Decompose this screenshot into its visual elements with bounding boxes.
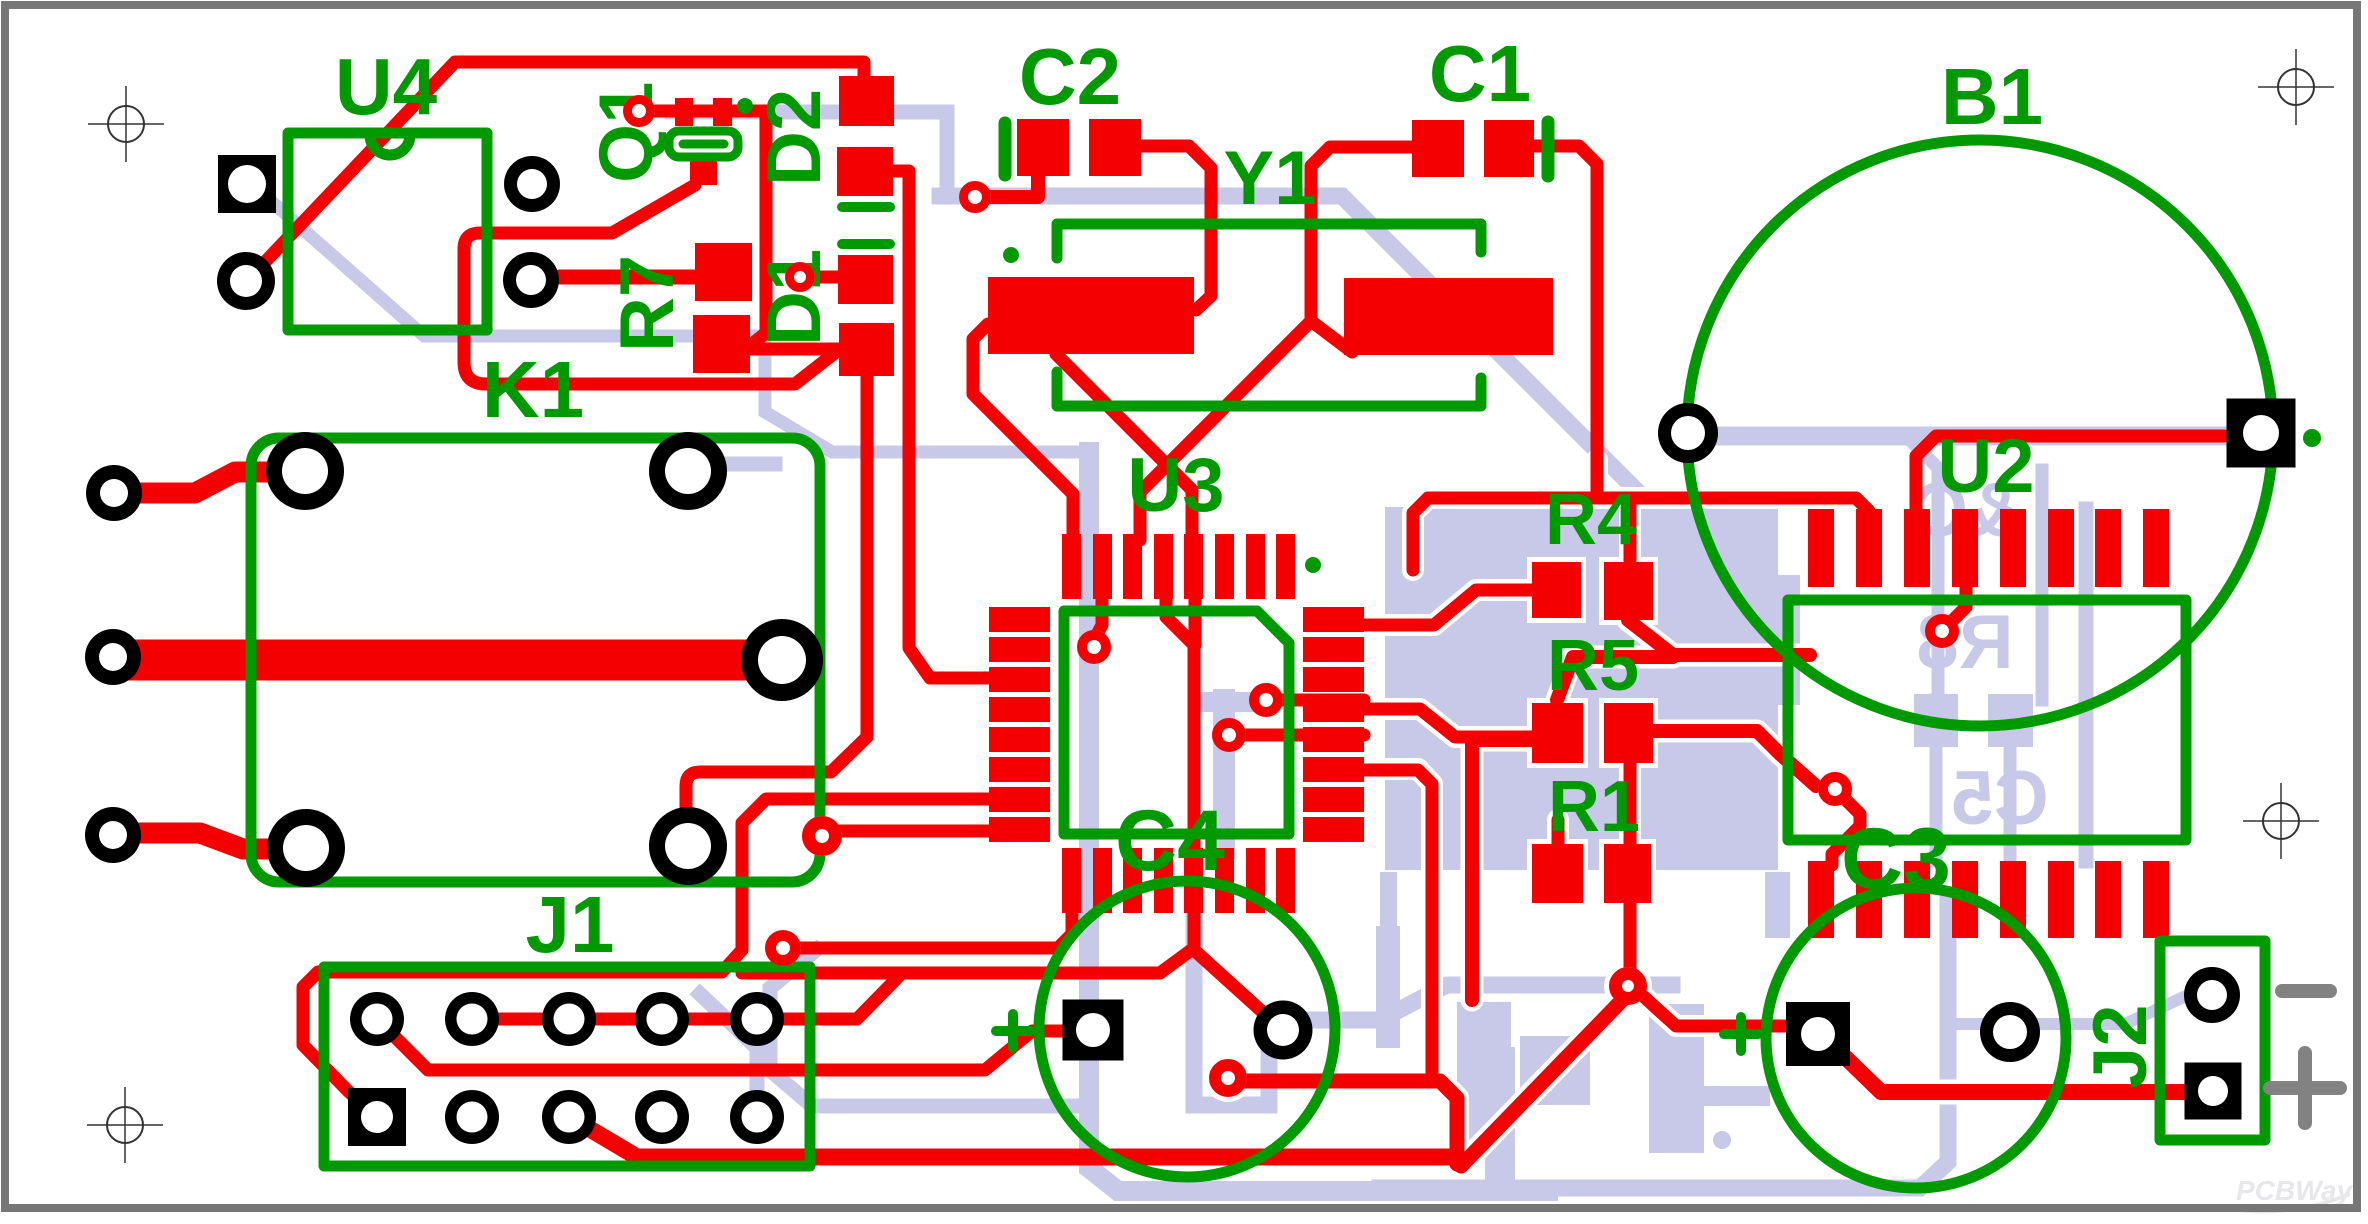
pad U3-bot-3 <box>1123 848 1142 913</box>
pad D2-2 <box>839 76 894 126</box>
svg-text:Q1: Q1 <box>584 82 669 183</box>
wire U3 ring2 stub <box>1246 729 1364 742</box>
pad U2-bot-3 <box>1904 861 1930 938</box>
pad bottom big pad A <box>1457 1002 1511 1159</box>
wire C1 pad2 to net <box>1534 146 1597 496</box>
pad P2 <box>85 629 141 685</box>
svg-text:U4: U4 <box>335 42 438 131</box>
svg-text:J1: J1 <box>526 880 615 969</box>
outline K1 <box>251 438 820 882</box>
fiducial top-right <box>2258 49 2334 125</box>
pad Q1-2 <box>713 98 732 126</box>
pad U2-bot-1 <box>1808 861 1834 938</box>
outline J2 <box>2160 941 2265 1140</box>
svg-text:C5: C5 <box>1951 756 2048 841</box>
pad U4-2 <box>217 252 275 310</box>
pad K1-3 <box>741 619 823 701</box>
via bottom dot <box>1713 1131 1731 1149</box>
pad U3-left-1 <box>989 607 1050 632</box>
watermark PCBWay <box>2232 1175 2354 1213</box>
wire bottom region arm <box>1660 628 1787 652</box>
svg-text:U2: U2 <box>1937 424 2034 509</box>
wire U3 pin2 to via-a <box>1094 599 1102 640</box>
via U3-a <box>1077 630 1111 664</box>
wire bottom C4 vertical <box>1194 858 1269 1105</box>
wire U3 ring stub <box>1283 694 1364 707</box>
outline Q1 <box>669 131 738 157</box>
pad bottom band to C3 <box>1700 1086 1770 1106</box>
pad U3-top-6 <box>1215 534 1234 599</box>
pad bottom U2 pad2 <box>1988 694 2033 747</box>
pad U2-bot-2 <box>1856 861 1882 938</box>
pad J1-1 square <box>348 1088 406 1146</box>
fiducial bottom-right <box>2243 783 2319 859</box>
pad bottom left step <box>1380 872 1397 1022</box>
wire J1 via to U3 bottom pin1 <box>800 908 1072 948</box>
pad R4-2 <box>1604 562 1653 620</box>
via D1 <box>785 262 815 292</box>
outline B1 circle <box>1687 140 2273 726</box>
pad Q1-3 <box>690 158 717 185</box>
symbol C3 plus <box>1724 1017 1758 1051</box>
wire Q1 pad3 to D1 pad2 loop <box>464 185 836 384</box>
pad U3-top-4 <box>1154 534 1173 599</box>
via C2 <box>959 181 991 213</box>
outline Y1 bracket top <box>1057 224 1481 258</box>
pad U3-top-5 <box>1184 534 1203 599</box>
wire U3 row7 to J1 pin1 <box>303 799 992 1112</box>
via U2-b <box>1818 772 1852 806</box>
pad J1-3 row1 <box>445 992 499 1046</box>
pad U3-right-4 <box>1303 697 1364 722</box>
pad U3-left-7 <box>989 787 1050 812</box>
wire bottom U2 feed verticals <box>1910 440 1938 700</box>
pad R1-2 <box>1604 844 1651 903</box>
pad D1-1 <box>838 255 893 304</box>
dot B1 pin1 <box>2303 429 2321 447</box>
pad U3-top-7 <box>1246 534 1265 599</box>
pad U3-right-8 <box>1303 817 1364 842</box>
wire U4 diagonal to top rail <box>246 62 864 282</box>
pad J1-11 row2 <box>445 1090 499 1144</box>
wire R5 pad2 to U2 ring <box>1653 731 1816 786</box>
svg-text:B1: B1 <box>1941 52 2043 141</box>
pad U3-bot-5 <box>1184 848 1203 913</box>
pad U4-1 square <box>218 155 276 213</box>
pad U3-left-4 <box>989 697 1050 722</box>
wire R7 pad2 to D1 <box>748 343 840 356</box>
wire D2 pad2 to U3 left row3 <box>893 171 992 678</box>
pad Q1-1 <box>675 98 693 126</box>
pad U3-bot-4 <box>1154 848 1173 913</box>
wire K1 pad2 to R7 pad1 <box>560 270 697 285</box>
pad U2-bot-6 <box>2048 861 2074 938</box>
svg-text:PCBWay: PCBWay <box>2236 1175 2354 1206</box>
wire bottom bus right riser <box>1380 898 1948 1188</box>
pad C4-plus square <box>1063 1000 1124 1061</box>
pad R7-1 <box>695 243 752 301</box>
pad U2-top-7 <box>2095 509 2121 587</box>
wire Q1 row to R7 <box>655 111 766 344</box>
outline D2 bar <box>842 202 890 212</box>
wire bottom net B1-to-B1pad <box>1700 427 2222 446</box>
svg-text:C2: C2 <box>1019 32 1121 121</box>
wire B1 pad to U2 pin3 <box>1916 436 2224 512</box>
wire U3 row1 to R4 pad1 <box>1364 590 1535 625</box>
pad J1-13 row2 <box>635 1090 689 1144</box>
dot Y1 pin1 <box>1003 247 1019 263</box>
pad K1-4 <box>267 809 345 887</box>
pad C1-2 <box>1484 120 1534 177</box>
outline Y1 bracket bottom <box>1057 372 1481 406</box>
svg-text:J2: J2 <box>2078 1004 2163 1089</box>
pad C2-2 <box>1089 119 1141 176</box>
pad U2-top-6 <box>2048 509 2074 587</box>
wire bottom K1 pad stub <box>693 457 775 472</box>
wire J1 row1 bus <box>472 974 901 1019</box>
wire P3 to K1 pad4 <box>103 833 290 849</box>
pad U3-top-1 <box>1062 534 1081 599</box>
pad D1-2 <box>839 323 894 376</box>
wire R4 rail <box>1413 498 1428 570</box>
svg-text:C1: C1 <box>1429 29 1531 118</box>
via U2-a <box>1925 614 1959 648</box>
wire bottom J1 z-path <box>770 950 1089 1106</box>
pad U4-4 <box>503 252 559 308</box>
wire J1 pin2 to C4 pad+ <box>377 1019 1066 1070</box>
pad U2-top-3 <box>1904 509 1930 587</box>
outline C1 bar <box>1542 122 1555 176</box>
wire bottom Q1 row <box>672 112 947 196</box>
svg-text:U3: U3 <box>1127 443 1224 528</box>
svg-text:Y1: Y1 <box>1224 136 1317 221</box>
wire R5 pad1 down <box>1472 740 1493 1000</box>
wire R5-R1 link <box>1624 760 1637 848</box>
wire bottom U3 left vertical <box>1089 452 1548 1191</box>
pad J1-6 row1 <box>730 992 784 1046</box>
outline U4 <box>288 133 487 330</box>
pad U2-bot-7 <box>2095 861 2121 938</box>
outline U2 <box>1788 600 2186 840</box>
pad R5-2 <box>1604 703 1653 763</box>
pad U2-bot-8 <box>2143 861 2169 938</box>
wire R4 pad2 to R5 rail <box>1628 620 1810 655</box>
wire bottom J1 right diagonal <box>700 994 757 1114</box>
wire bottom J2 feed <box>1948 996 2212 1024</box>
wire R4 pad2 up <box>1624 498 1637 560</box>
wire C4 fork left <box>742 838 1194 973</box>
wire bus diagonal to R1 via <box>1461 992 1630 1166</box>
wire D1 via stub <box>812 271 840 284</box>
wire R1 to via <box>1624 900 1637 970</box>
copper pour clearance halos <box>1385 460 2200 1166</box>
pad U2-top-4 <box>1952 509 1978 587</box>
pad K1-5 <box>649 807 727 885</box>
wire bus riser to C4 ring <box>1243 1081 1457 1164</box>
wire J1 pin13 bus to C4 ring <box>568 1116 1457 1157</box>
svg-text:R7: R7 <box>605 255 690 352</box>
pad C2-1 <box>1017 119 1069 176</box>
wire bottom bus left diagonal <box>1269 985 1672 1020</box>
pad P3 <box>85 807 141 863</box>
wire P1 to K1 pad1 <box>104 472 290 493</box>
pad J1-5 row1 <box>635 992 689 1046</box>
pad R4-1 <box>1532 562 1581 618</box>
pad U3-left-6 <box>989 757 1050 782</box>
outline C3 circle <box>1766 888 2066 1188</box>
outline C4 circle <box>1039 881 1335 1177</box>
outline U3 <box>1064 611 1289 834</box>
pad U2-top-1 <box>1808 509 1834 587</box>
pad U2-top-2 <box>1856 509 1882 587</box>
svg-text:C3: C3 <box>1841 811 1951 907</box>
svg-text:R5: R5 <box>1547 626 1639 706</box>
pad U3-right-5 <box>1303 727 1364 752</box>
pad bottom hook band <box>1520 1036 1590 1105</box>
via J1-via <box>765 930 801 966</box>
pad J2-1 <box>2184 967 2240 1023</box>
wire U3 internal Y <box>1166 599 1195 838</box>
pad U3-left-2 <box>989 637 1050 662</box>
pad U3-bot-7 <box>1246 848 1265 913</box>
symbol J2 minus <box>2282 984 2330 998</box>
pad U3-bot-8 <box>1276 848 1295 913</box>
pad J2-2 square <box>2185 1063 2242 1120</box>
pad bottom strip R <box>1765 872 1790 938</box>
pad U2-bot-4 <box>1952 861 1978 938</box>
pad U3-left-5 <box>989 727 1050 752</box>
pad U2-bot-5 <box>2000 861 2026 938</box>
wire C2 via stub <box>989 176 1038 197</box>
svg-text:K1: K1 <box>482 345 584 434</box>
pad U3-bot-2 <box>1093 848 1112 913</box>
wire bottom C2-to-region diagonal <box>940 196 1650 504</box>
wire Y1 pad2 to U3 pin3 <box>1140 321 1311 540</box>
svg-text:C4: C4 <box>1115 793 1225 889</box>
pad B1-1 <box>1658 403 1718 463</box>
pad C3-minus <box>1980 1002 2040 1062</box>
wire bottom U3 inner vertical <box>1213 700 1235 848</box>
pad U3-right-2 <box>1303 637 1364 662</box>
wire C3 pad to J2 <box>1845 1057 2200 1092</box>
wire R1 pad1 stub <box>1552 820 1565 845</box>
pad U3-left-3 <box>989 667 1050 692</box>
wire U2 ring1 stub <box>1944 585 1966 629</box>
pad U3-top-3 <box>1123 534 1142 599</box>
wire C4 fork right to pad <box>1194 950 1278 1026</box>
wire Y1 pad1 to U3 pin1 <box>973 324 1073 540</box>
svg-text:D2: D2 <box>752 89 837 186</box>
pad R1-1 <box>1532 844 1583 903</box>
outline U4 notch <box>370 135 410 155</box>
copper pour bottom region <box>1376 507 2033 1195</box>
pad J1-14 row2 <box>730 1090 784 1144</box>
pad U3-bot-1 <box>1062 848 1081 913</box>
svg-text:R1: R1 <box>1548 767 1640 847</box>
via R1-via <box>1609 967 1647 1005</box>
pad R7-2 <box>693 315 750 373</box>
pad U2-top-5 <box>2000 509 2026 587</box>
outline C2 bar <box>999 123 1012 175</box>
symbol J2 plus <box>2270 1053 2340 1123</box>
wire Y1 pad1 top diagonal <box>1056 354 1192 540</box>
wire via to C3 pad <box>1643 996 1792 1026</box>
fiducial bottom-left <box>87 1087 163 1163</box>
wire bottom U4-K1 diagonal <box>272 202 1085 452</box>
pad bottom big pad B <box>1649 1004 1704 1153</box>
pad C4-minus <box>1254 1001 1313 1060</box>
via Q1 <box>623 95 655 127</box>
pad U3-left-8 <box>989 817 1050 842</box>
dot U3 pin1 <box>1305 557 1321 573</box>
pad bottom U2 pad1 <box>1914 694 1958 747</box>
pad P1 <box>86 465 142 521</box>
pad K1-1 <box>266 432 344 510</box>
outline Q1 bar <box>683 140 724 149</box>
dot Q1 pin1 <box>737 98 753 114</box>
pad bottom small strip <box>1376 926 1400 1048</box>
pad J1-4 row1 <box>542 992 596 1046</box>
pad U3-right-7 <box>1303 787 1364 812</box>
pad K1-2 <box>649 432 727 510</box>
wire U3 row5 right <box>1364 770 1432 1074</box>
via C4-via <box>1209 1059 1247 1097</box>
outline J1 <box>324 967 810 1166</box>
pad U3-top-2 <box>1093 534 1112 599</box>
pad U3-right-3 <box>1303 667 1364 692</box>
svg-text:R4: R4 <box>1545 480 1637 560</box>
pad C3-plus square <box>1786 1002 1850 1066</box>
wire P2 to K1 pad3 thick bus <box>100 640 770 681</box>
pad J1-12 row2 <box>542 1090 596 1144</box>
pad J1-2 row1 <box>350 992 404 1046</box>
pad U3-right-1 <box>1303 607 1364 632</box>
pad B1-2 square <box>2227 399 2296 468</box>
wire U2 ring2 elbow <box>1832 791 1860 865</box>
pad U4-3 <box>504 156 560 212</box>
pad C1-1 <box>1412 120 1464 177</box>
outline D1 bar <box>842 239 890 249</box>
wire D1 pad2 to K1 pad6 <box>686 376 867 840</box>
pad U3-bot-6 <box>1215 848 1234 913</box>
pad Y1-1 <box>988 277 1194 354</box>
wire C1 pad1 to Y1 pad2 <box>1311 147 1412 352</box>
wire C2 pad2 to Y1 pad1 <box>1141 146 1211 310</box>
pad U3-top-8 <box>1276 534 1295 599</box>
fiducial top-left <box>88 86 164 162</box>
wire K1 via to U3 row8 <box>838 825 992 838</box>
via U3-c <box>1212 718 1246 752</box>
pad D2-1 <box>837 147 893 196</box>
via U3-b <box>1249 683 1283 717</box>
wire U3 row3 to R5 pad1 <box>1364 709 1535 737</box>
pad U2-top-8 <box>2143 509 2169 587</box>
wire U2 pin2 rail <box>1856 498 1869 540</box>
pad bottom riser <box>1485 1047 1515 1195</box>
pad R5-1 <box>1532 703 1583 763</box>
symbol C4 plus <box>996 1014 1030 1048</box>
pad U3-right-6 <box>1303 757 1364 782</box>
pad Y1-2 <box>1344 278 1553 355</box>
via K1-via <box>802 816 842 856</box>
